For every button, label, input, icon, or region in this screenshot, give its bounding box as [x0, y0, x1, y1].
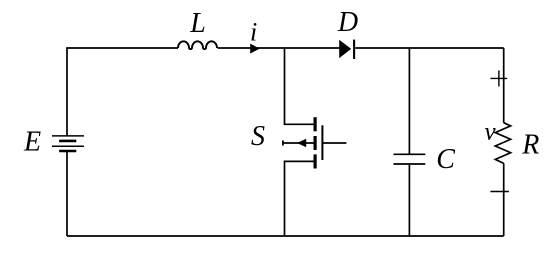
wire: bottom rail from right corner to left corner	[67, 235, 504, 237]
svg-text:D: D	[337, 7, 358, 38]
transistor S: gate lead wire	[322, 142, 346, 144]
transistor S: channel bar top segment (drain contact)	[314, 117, 317, 131]
svg-text:R: R	[521, 130, 539, 161]
svg-text:C: C	[436, 144, 455, 175]
capacitor C bottom plate	[394, 163, 426, 165]
current arrow i	[250, 44, 259, 54]
battery E: short plate 2	[59, 150, 76, 153]
diode D cathode bar	[353, 40, 355, 59]
svg-text:i: i	[250, 18, 257, 47]
capacitor C top plate	[394, 153, 426, 155]
battery E: long plate 1	[52, 135, 84, 137]
wire: MOSFET source lead down to bottom wire	[285, 161, 314, 236]
wire: node A down to MOSFET drain lead	[285, 48, 314, 124]
svg-text:L: L	[189, 8, 206, 39]
inductor L	[178, 41, 217, 49]
battery E: short plate 1	[59, 140, 76, 143]
minus sign (output polarity -)	[490, 191, 509, 193]
svg-text:v: v	[484, 119, 496, 146]
transistor S: body lead wire with end tick	[282, 140, 313, 145]
transistor S: channel bar middle segment (body contact)	[314, 136, 317, 150]
wire: top-right corner down to resistor top	[503, 48, 505, 123]
svg-text:S: S	[251, 121, 265, 152]
wire: inductor to diode anode (passes node A)	[218, 47, 341, 49]
battery E: long plate 2	[52, 145, 84, 147]
svg-text:E: E	[23, 127, 41, 158]
wire: battery negative down to bottom-left corner	[66, 152, 68, 236]
transistor S: channel bar bottom segment (source contact)	[314, 154, 317, 168]
wire: top wire down to capacitor top plate	[408, 48, 410, 154]
wire: capacitor bottom plate down to bottom wire	[408, 165, 410, 236]
wire: battery positive up to top-left corner and right to inductor	[67, 48, 178, 135]
resistor R zigzag	[495, 123, 510, 164]
wire: diode cathode to top-right corner	[355, 47, 504, 49]
transistor S: body arrow (points left)	[297, 139, 306, 148]
plus sign (output polarity +)	[491, 70, 508, 86]
wire: resistor bottom to bottom-right corner	[503, 163, 505, 236]
transistor S: gate bar	[321, 125, 323, 160]
diode D triangle	[339, 40, 351, 58]
